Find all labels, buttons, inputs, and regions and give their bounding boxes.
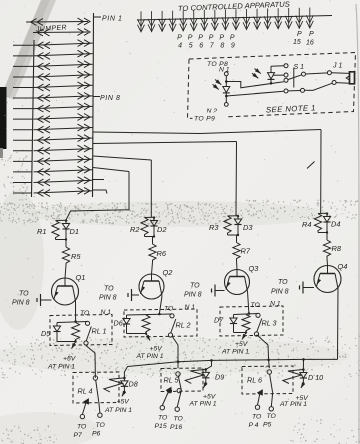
svg-text:P 4: P 4: [249, 422, 259, 429]
bottom tie wire R4/D4: [318, 232, 327, 234]
wire Q3 collector down: [248, 292, 249, 314]
jumper wire row 8 with arrows: [13, 97, 33, 99]
svg-text:D 10: D 10: [308, 373, 323, 382]
light arrows into LED D12: [255, 69, 261, 74]
+5V tail RL 3: [242, 333, 246, 340]
svg-text:P6: P6: [92, 431, 101, 438]
svg-text:TO: TO: [77, 424, 87, 431]
top node wire RL 2: [127, 314, 173, 315]
wire feed C (rail to Q2 column): [93, 156, 151, 160]
base lead and pin-8 bars: [41, 299, 52, 301]
svg-text:PIN 8: PIN 8: [271, 289, 289, 296]
svg-text:R7: R7: [241, 247, 251, 256]
svg-text:AT PIN 1: AT PIN 1: [189, 401, 217, 408]
svg-text:RL 2: RL 2: [176, 321, 191, 330]
svg-text:RL 6: RL 6: [247, 376, 262, 385]
svg-text:TO: TO: [158, 415, 168, 422]
terminal P5: [269, 407, 273, 411]
relay coil RL 2: [142, 315, 150, 334]
bottom tie wire R3/D3: [228, 234, 239, 236]
svg-text:R5: R5: [71, 252, 81, 261]
bottom tie wire R1/D1: [56, 239, 67, 241]
jumper wire row 10 with arrows: [13, 118, 33, 120]
connector arrow 1: [140, 11, 142, 32]
bottom tie wire RL 1: [57, 341, 76, 343]
fixed contact arrow RL 5: [167, 388, 172, 393]
soft paper blotches (decorative): [0, 190, 44, 330]
connector arrow 17: [309, 8, 311, 29]
opto LED D12: [270, 82, 273, 85]
svg-text:D5: D5: [41, 329, 51, 338]
svg-text:AT PIN 1: AT PIN 1: [104, 407, 132, 414]
svg-text:AT PIN 1: AT PIN 1: [47, 364, 75, 371]
svg-text:9: 9: [231, 43, 235, 50]
svg-text:P: P: [188, 35, 193, 42]
svg-text:+5V: +5V: [117, 399, 131, 406]
wire to contact c3: [273, 74, 284, 76]
switch link: [293, 68, 295, 88]
svg-text:D2: D2: [157, 225, 166, 234]
jumper wire row 4 with arrows: [13, 55, 33, 57]
svg-text:R2: R2: [130, 225, 139, 234]
jumper wire row 13 with arrows: [13, 150, 32, 152]
svg-text:PIN 8: PIN 8: [184, 292, 202, 299]
svg-text:R8: R8: [332, 244, 342, 253]
+5V tail RL 1: [72, 342, 76, 349]
svg-text:AT PIN 1: AT PIN 1: [136, 353, 164, 360]
wire Q1 collector down: [75, 301, 77, 321]
svg-text:D8: D8: [129, 380, 138, 389]
svg-text:R6: R6: [157, 249, 167, 258]
svg-text:TO: TO: [80, 310, 90, 317]
svg-text:AT PIN 1: AT PIN 1: [221, 349, 249, 356]
diode D2: [153, 217, 155, 221]
top tie wire R3/D3: [228, 215, 239, 217]
svg-text:Q3: Q3: [249, 264, 260, 273]
diode D 10: [302, 370, 304, 373]
svg-text:N 1: N 1: [101, 309, 112, 316]
opto LED D11: [223, 87, 230, 93]
svg-text:R3: R3: [209, 223, 219, 232]
diode D3: [237, 216, 239, 220]
terminal P 4: [255, 405, 259, 409]
relay contact RL 5: [176, 372, 180, 376]
wire feed C vertical drop to R2/D2: [150, 160, 152, 217]
transistor Q1: [52, 278, 79, 305]
relay contact RL 4: [93, 376, 97, 380]
resistor R1: [52, 221, 59, 240]
wire R8 to transistor Q4: [326, 258, 329, 266]
diode D4: [326, 213, 328, 217]
wire W1 LED junction to switch: [226, 82, 283, 88]
relay contact RL 1: [85, 321, 89, 325]
wire feed B (rail to Q3 column): [93, 142, 237, 144]
resistor R8: [323, 240, 330, 258]
svg-text:P5: P5: [263, 422, 272, 429]
svg-text:S 1: S 1: [294, 64, 305, 71]
jumper wire row 6 with arrows: [13, 76, 33, 78]
relay contact RL 6: [267, 370, 271, 374]
svg-text:TO P9: TO P9: [194, 116, 215, 123]
bottom tie wire RL 2: [127, 333, 147, 335]
wire RL1 contact to RL4: [86, 346, 95, 378]
top node wire RL 1: [57, 322, 88, 323]
wire RL3 contact to RL6: [257, 335, 270, 368]
svg-text:RL 1: RL 1: [92, 327, 107, 336]
wire stub row 16: [93, 179, 104, 181]
svg-text:TO: TO: [252, 414, 262, 421]
wire LED D12 to switch contact: [271, 65, 284, 68]
jumper wire row 9 with arrows: [13, 108, 33, 110]
wire feed D drop and return to R1/D1: [66, 172, 129, 221]
svg-text:D6: D6: [114, 319, 123, 328]
stray pen mark: [307, 162, 315, 169]
wire feed D (rail to Q1 column): [93, 168, 129, 172]
svg-text:D9: D9: [215, 373, 224, 382]
dashed module box RL 5: [161, 368, 203, 392]
wire stub row 17: [93, 190, 108, 194]
svg-text:P: P: [297, 31, 302, 38]
top node wire RL 3: [234, 314, 259, 315]
svg-text:TO: TO: [190, 283, 200, 290]
diode D9: [205, 369, 207, 372]
fixed contact arrow RL 4: [84, 399, 89, 404]
relay coil RL 5 (horizontal zig): [185, 369, 206, 383]
dashed module box RL 3: [220, 306, 283, 336]
svg-text:Q1: Q1: [76, 273, 86, 282]
svg-text:16: 16: [306, 40, 314, 47]
svg-text:P: P: [219, 35, 224, 42]
svg-text:D7: D7: [214, 316, 224, 325]
jumper wire row 12 with arrows: [13, 139, 32, 141]
terminal wires RL 6: [258, 394, 260, 405]
svg-text:+5V: +5V: [63, 356, 77, 363]
svg-text:N 1: N 1: [270, 301, 281, 308]
terminal N1: [224, 72, 228, 76]
wire R6 to transistor Q2: [152, 262, 153, 274]
resistor R3: [224, 216, 231, 235]
connector arrow 15: [288, 8, 290, 29]
svg-text:D3: D3: [243, 223, 253, 232]
bottom tie wire RL 3: [234, 332, 247, 334]
dashed module box RL 6: [242, 366, 293, 394]
svg-text:P15: P15: [155, 423, 167, 430]
wire bus to D9: [206, 360, 212, 369]
jumper wire row 5 with arrows: [13, 65, 33, 67]
+5V tail RL 5: [203, 383, 206, 388]
svg-text:Q4: Q4: [338, 262, 348, 271]
resistor R7: [233, 243, 240, 261]
wire feed A (rail to Q4 column): [93, 130, 321, 134]
terminal P6: [98, 413, 102, 417]
jack plug body: [350, 72, 355, 84]
wire Q2 collector down: [159, 296, 162, 314]
svg-text:TO: TO: [96, 422, 106, 429]
connector arrow 2: [151, 11, 153, 32]
svg-text:D4: D4: [331, 220, 340, 229]
top tie wire R4/D4: [318, 212, 327, 214]
connector arrow 13: [267, 8, 269, 29]
svg-text:PIN 1: PIN 1: [102, 16, 123, 23]
svg-text:RL 4: RL 4: [78, 387, 93, 396]
transistor Q4: [314, 266, 341, 293]
pin 1 tick: [94, 16, 101, 18]
connector arrow 9: [224, 9, 226, 30]
scanner black edge mark: [0, 87, 7, 149]
terminal P16: [175, 407, 179, 411]
resistor R4: [314, 214, 321, 233]
relay contact RL 3: [256, 313, 260, 317]
svg-text:RL 3: RL 3: [262, 319, 277, 328]
base lead and pin-8 bars: [304, 287, 315, 289]
diode D6: [126, 315, 128, 319]
connector arrow 4: [172, 11, 174, 32]
wire bus to D 10: [302, 359, 304, 369]
svg-text:J 1: J 1: [332, 63, 342, 70]
wire R7 to transistor Q3: [236, 261, 239, 270]
dashed module box RL 1: [50, 315, 112, 346]
svg-text:6: 6: [199, 43, 203, 50]
svg-text:P: P: [230, 35, 235, 42]
wire feed B vertical drop to R3/D3: [235, 142, 238, 216]
svg-text:+5V: +5V: [150, 346, 164, 353]
base lead and pin-8 bars: [132, 294, 139, 296]
connector arrow 6: [193, 10, 195, 31]
svg-text:R4: R4: [302, 220, 311, 229]
jumper wire row 1 with arrows: [26, 21, 88, 24]
right page border: [356, 4, 359, 444]
connector arrow 5: [182, 10, 184, 31]
jumper wire row 7 with arrows: [13, 87, 33, 89]
relay coil RL 4 (horizontal zig): [104, 378, 125, 392]
jumper header block: left rail: [32, 40, 35, 197]
RL5 fixed contact terminals: [167, 389, 171, 393]
+5V tail RL 6: [301, 384, 304, 389]
+5V tail RL 2: [146, 334, 150, 341]
svg-text:+5V: +5V: [203, 394, 217, 401]
svg-text:PIN 8: PIN 8: [12, 300, 30, 307]
terminal wires RL 5: [162, 392, 168, 406]
bottom tie wire R2/D2: [145, 236, 155, 238]
diode D5: [56, 323, 58, 327]
svg-text:TO: TO: [104, 286, 114, 293]
relay coil RL 1: [72, 323, 80, 342]
connector arrow 11: [246, 9, 248, 30]
diode D1: [65, 220, 67, 224]
jumper header block: right rail: [93, 13, 94, 197]
resistor R6: [149, 244, 156, 262]
svg-text:PIN 8: PIN 8: [100, 95, 121, 102]
wire bus to D8: [124, 367, 127, 378]
dashed module box RL 4: [73, 372, 119, 403]
connector arrow 10: [235, 9, 237, 30]
dashed module box RL 2: [124, 309, 197, 337]
svg-text:4: 4: [178, 43, 182, 50]
svg-text:P: P: [198, 35, 203, 42]
connector arrow 7: [203, 10, 205, 31]
connector arrow 14: [277, 8, 279, 29]
terminal P15: [160, 406, 164, 410]
diode D8: [123, 378, 125, 381]
relay coil RL 6 (horizontal zig): [283, 370, 304, 384]
svg-text:+5V: +5V: [235, 341, 249, 348]
wire feed A vertical drop to R4/D4: [320, 130, 322, 214]
wire bus to relay coils: [128, 359, 338, 366]
resistor R2: [141, 218, 148, 237]
terminal N2: [224, 103, 228, 107]
svg-text:P: P: [177, 35, 182, 42]
svg-text:TO: TO: [251, 302, 261, 309]
jumper wire row 11 with arrows: [13, 129, 33, 131]
svg-text:P16: P16: [170, 424, 182, 431]
svg-text:D1: D1: [70, 227, 79, 236]
light arrows into LED: [215, 80, 221, 85]
jumper wire row 3 with arrows: [13, 44, 33, 46]
transistor Q2: [139, 274, 164, 299]
pin 8 tick: [93, 96, 100, 98]
svg-text:8: 8: [220, 43, 224, 50]
svg-text:TO: TO: [174, 416, 184, 423]
wire to resistor R6: [152, 237, 154, 245]
svg-text:RL 5: RL 5: [164, 376, 180, 385]
wire RL2 contact to RL5: [172, 336, 178, 368]
terminal wires RL 4: [82, 403, 86, 414]
transistor Q3: [225, 270, 250, 295]
resistor R5: [62, 247, 69, 265]
svg-text:N 1: N 1: [185, 304, 196, 311]
terminal P7: [80, 414, 84, 418]
wire Q4 collector down to bus: [337, 289, 340, 360]
fixed contact arrow RL 6: [258, 390, 263, 395]
svg-text:Q2: Q2: [163, 268, 173, 277]
switch arm lower: [288, 90, 301, 92]
jumper wire row 17 with arrows: [13, 192, 32, 194]
top tie wire R1/D1: [56, 219, 67, 221]
wire W2 LED junction to switch: [226, 91, 283, 96]
svg-text:AT PIN 1: AT PIN 1: [279, 401, 307, 408]
svg-text:TO: TO: [164, 306, 174, 313]
svg-text:TO: TO: [278, 279, 288, 286]
wire to resistor R8: [326, 233, 328, 241]
svg-text:P: P: [209, 35, 214, 42]
jumper wire row 2 with arrows: [33, 31, 88, 34]
svg-text:5: 5: [189, 43, 193, 50]
diode D7: [233, 315, 235, 319]
base lead and pin-8 bars: [216, 290, 225, 292]
jumper wire row 15 with arrows: [13, 171, 32, 173]
wire to resistor R7: [236, 235, 238, 243]
page corner shadow streak (decorative): [1, 0, 50, 98]
wire R5 to transistor Q1: [65, 265, 66, 278]
relay contact RL 2: [170, 314, 174, 318]
switch arm upper: [288, 75, 302, 80]
bus line to controlled apparatus: [137, 16, 332, 21]
wire to resistor R5: [65, 240, 67, 248]
wire N1 to LED: [225, 76, 227, 86]
relay coil RL 3: [242, 315, 250, 333]
svg-text:P: P: [309, 31, 314, 38]
top tie wire R2/D2: [145, 216, 155, 218]
svg-text:TO: TO: [267, 413, 277, 420]
connector arrow 12: [256, 9, 258, 30]
svg-text:R1: R1: [37, 227, 46, 236]
connector arrow 16: [298, 8, 300, 29]
connector arrow 8: [214, 10, 216, 31]
dashed enclosure SEE NOTE 1: [188, 53, 356, 119]
svg-text:PIN 8: PIN 8: [99, 295, 117, 302]
svg-text:15: 15: [293, 39, 301, 46]
jumper wire row 14 with arrows: [13, 160, 32, 162]
connector arrow 3: [161, 11, 163, 32]
svg-text:P7: P7: [74, 432, 83, 439]
svg-text:TO: TO: [19, 291, 29, 298]
+5V tail RL 4: [122, 392, 125, 397]
jumper wire row 16 with arrows: [13, 181, 32, 183]
